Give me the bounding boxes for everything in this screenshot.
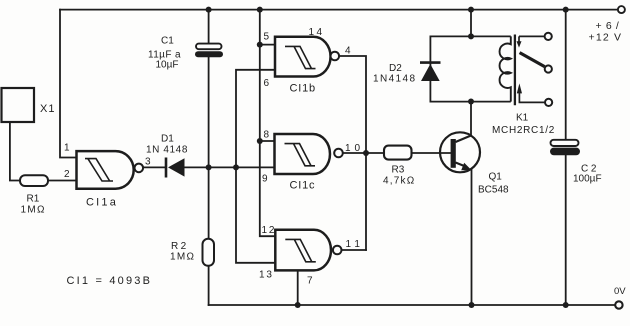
svg-text:12: 12 xyxy=(262,225,277,236)
svg-text:10µF: 10µF xyxy=(156,60,179,71)
diode D2 xyxy=(373,63,441,85)
svg-text:2: 2 xyxy=(64,169,70,180)
NAND gate CI1b xyxy=(275,37,339,95)
terminal +6/+12V xyxy=(618,6,625,13)
wire rail to relay box xyxy=(470,10,472,37)
svg-text:1MΩ: 1MΩ xyxy=(21,205,46,216)
svg-text:Q1: Q1 xyxy=(489,172,503,183)
sensor X1 xyxy=(2,88,56,122)
node A-pin6/13 xyxy=(233,164,239,170)
wire node A (D1 to pin9) xyxy=(185,166,275,168)
svg-text:CI1 = 4093B: CI1 = 4093B xyxy=(67,275,153,287)
svg-text:CI1c: CI1c xyxy=(290,180,316,192)
svg-text:5: 5 xyxy=(264,32,270,43)
svg-text:13: 13 xyxy=(259,270,274,281)
svg-text:10: 10 xyxy=(345,143,364,154)
svg-text:R3: R3 xyxy=(392,165,405,176)
wire pins 5-8-12 vertical from rail xyxy=(260,10,276,237)
node 0V C2 xyxy=(563,302,569,308)
svg-text:14: 14 xyxy=(309,27,325,38)
diode D1 xyxy=(146,134,188,178)
svg-text:BC548: BC548 xyxy=(478,185,509,196)
svg-text:R2: R2 xyxy=(171,241,189,252)
wire R2 bottom to 0V rail xyxy=(208,266,210,305)
svg-text:4,7kΩ: 4,7kΩ xyxy=(383,175,415,186)
node pin8 tap xyxy=(257,138,263,144)
svg-text:11: 11 xyxy=(346,239,364,250)
transistor Q1 xyxy=(440,132,509,195)
svg-text:CI1b: CI1b xyxy=(290,83,316,95)
svg-text:9: 9 xyxy=(262,174,268,185)
svg-text:CI1a: CI1a xyxy=(86,197,118,209)
node 0V pin7 xyxy=(295,302,301,308)
svg-text:1: 1 xyxy=(64,143,70,154)
wire pin1 feedback from rail xyxy=(60,10,77,158)
NAND gate CI1c xyxy=(275,134,343,192)
NAND gate CI1d xyxy=(275,230,341,271)
wire C2 bottom lead xyxy=(565,155,567,305)
node A-C1R2 xyxy=(206,164,212,170)
wire CI1d output pin11 xyxy=(341,249,366,251)
wire CI1c output pin10 to R3 xyxy=(343,152,384,154)
wire C1 top lead xyxy=(208,10,210,44)
node relay top xyxy=(468,33,474,39)
node relay bottom xyxy=(468,99,474,105)
resistor R1 xyxy=(20,175,48,215)
svg-text:0V: 0V xyxy=(614,286,626,297)
wire pin8 stub xyxy=(260,140,275,142)
svg-text:1MΩ: 1MΩ xyxy=(170,252,195,263)
svg-text:D2: D2 xyxy=(389,63,402,74)
resistor R2 xyxy=(170,239,214,266)
svg-text:R1: R1 xyxy=(27,194,40,205)
svg-text:D1: D1 xyxy=(161,134,174,145)
svg-text:X1: X1 xyxy=(40,103,55,115)
svg-text:1N 4148: 1N 4148 xyxy=(146,145,188,156)
wire top +V rail xyxy=(60,9,618,11)
wire R1 to pin2 xyxy=(48,180,77,182)
svg-text:4: 4 xyxy=(345,46,351,57)
wire pin5 stub xyxy=(260,44,275,46)
wire pin6 branch from node A xyxy=(236,70,275,168)
svg-text:3: 3 xyxy=(145,157,151,168)
svg-text:8: 8 xyxy=(264,130,270,141)
svg-text:7: 7 xyxy=(307,276,313,287)
node rail-C2 xyxy=(563,7,569,13)
resistor R3 xyxy=(383,146,415,187)
terminal 0V xyxy=(615,301,622,308)
node rail-pin5 line xyxy=(257,7,263,13)
wire CI1b output pin4 xyxy=(339,56,366,250)
svg-text:+6/: +6/ xyxy=(596,20,624,32)
svg-text:100µF: 100µF xyxy=(573,174,602,185)
svg-text:+12 V: +12 V xyxy=(589,32,623,44)
wire Q1 emitter to 0V rail xyxy=(471,170,473,306)
wire C2 top lead xyxy=(565,10,567,140)
wire X1 lead to R1 xyxy=(10,122,20,181)
NAND gate CI1a xyxy=(77,151,144,208)
node outputs join xyxy=(363,150,369,156)
relay K1 coil and box xyxy=(430,35,515,106)
wire bottom 0V rail xyxy=(209,304,615,306)
capacitor C1 xyxy=(148,36,223,71)
wire CI1a output to D1 xyxy=(143,166,166,168)
node pin5 tap xyxy=(257,42,263,48)
svg-text:C1: C1 xyxy=(161,36,174,47)
wire pin13 branch from node A xyxy=(236,167,275,262)
node rail-C1 xyxy=(206,7,212,13)
relay K1 contacts xyxy=(517,33,553,106)
node rail-relay xyxy=(468,7,474,13)
svg-text:MCH2RC1/2: MCH2RC1/2 xyxy=(492,125,555,136)
wire pin7 to 0V rail xyxy=(297,270,299,305)
svg-text:K1: K1 xyxy=(516,113,529,124)
wire R3 to Q1 base xyxy=(412,152,452,154)
svg-text:6: 6 xyxy=(264,78,270,89)
capacitor C2 xyxy=(550,140,602,185)
svg-text:1N4148: 1N4148 xyxy=(373,74,416,85)
wire relay box to Q1 collector xyxy=(470,102,472,136)
node 0V emitter xyxy=(469,302,475,308)
wire C1 bottom to node A to R2 xyxy=(208,57,210,239)
